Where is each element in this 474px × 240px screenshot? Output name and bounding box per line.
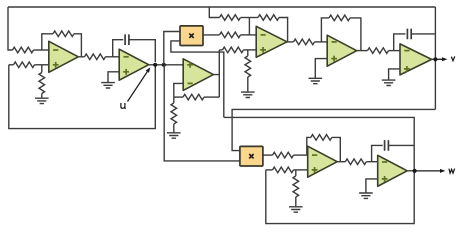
wire C2 to v line — [411, 33, 435, 35]
resistor R18 (w to U7 +) — [266, 169, 273, 171]
wire v rail drop — [209, 7, 219, 18]
wire U5 feedback drop — [350, 18, 361, 51]
wire C3 to w line — [388, 144, 414, 146]
wire U2 cap riser — [113, 40, 124, 57]
resistor R4 (U1 feedback) — [53, 31, 74, 37]
wire u feedback loop (left box bottom) — [9, 65, 156, 129]
resistor R10 (U3 feedback) — [174, 96, 183, 98]
wire U5 feedback riser — [321, 18, 329, 42]
wire U7 feedback drop — [332, 137, 341, 161]
wire U6 cap riser — [394, 34, 406, 51]
op-amp U6 — [400, 44, 432, 75]
multiplier M1 — [180, 26, 203, 46]
wire U5 + to ground — [315, 59, 327, 79]
wire M1 output — [203, 34, 220, 36]
wire U1 feedback to output — [74, 34, 81, 57]
resistor R6 (M1 out to U4 -) — [220, 32, 241, 38]
wire U8 output to node w — [407, 170, 414, 172]
node u junction dots — [153, 63, 157, 67]
wire u drop to M2 — [164, 65, 240, 161]
wire U6 + to ground — [389, 69, 400, 80]
label u — [121, 103, 126, 109]
node w dot — [413, 169, 417, 173]
wire w feedback loop (bottom box) — [266, 170, 414, 224]
wire U8 + to ground — [366, 179, 378, 193]
ground G8 — [359, 193, 373, 198]
wire u riser to M1 — [164, 32, 180, 65]
wire U4 - riser — [248, 18, 250, 35]
label v — [451, 56, 455, 60]
resistor R9 (U3 - to ground) — [173, 97, 175, 103]
wire U7 output — [337, 161, 345, 163]
resistor R2 (u input) — [9, 64, 14, 66]
wire U6 output to node v — [432, 58, 436, 60]
label w — [449, 169, 455, 174]
resistor R17 (U7 feedback) — [311, 135, 332, 141]
arrow v output — [435, 58, 442, 60]
wire M2 output — [263, 154, 273, 156]
ground G5 — [309, 78, 323, 83]
ground G4 — [241, 92, 255, 97]
resistor R14 (U5 feedback) — [329, 15, 350, 21]
resistor R20 (U7 out to U8 -) — [345, 159, 366, 165]
wire U5 output — [357, 50, 368, 52]
ground G2 — [101, 83, 115, 88]
op-amp U1 — [49, 41, 79, 72]
op-amp U8 — [378, 155, 408, 186]
resistor R15 (U5 out to U6 -) — [368, 48, 389, 54]
resistor R19 (U7 + to ground) — [295, 170, 297, 176]
resistor R11 (U3 out to U4 +) — [219, 49, 222, 51]
wire v vertical — [434, 7, 436, 109]
wire U4 feedback drop — [279, 18, 288, 42]
wire U7 feedback riser — [307, 137, 311, 155]
op-amp U2 — [119, 49, 149, 80]
op-amp U4 — [256, 26, 287, 57]
wire U4 output — [287, 41, 294, 43]
resistor R16 (M2 out to U7 -) — [273, 152, 294, 158]
wire C1 to u node — [129, 40, 155, 62]
capacitor C3 (U8 integrator) — [385, 140, 389, 151]
wire line A (v to M2) — [232, 109, 435, 150]
capacitor C1 (U2 integrator) — [125, 34, 129, 45]
ground G3 — [167, 133, 181, 138]
op-amp U3 — [183, 59, 213, 91]
resistor R3 (U1 + to ground) — [41, 65, 43, 73]
capacitor C2 (U6 integrator) — [407, 29, 411, 40]
wire U1 output — [78, 56, 84, 58]
wire w feed to M1 lower input — [171, 41, 224, 118]
op-amp U7 — [308, 146, 338, 177]
arrow w output — [415, 170, 440, 172]
arrow u pointer — [128, 72, 148, 102]
wire top feedback rail (v net) — [8, 6, 435, 8]
op-amp U5 — [327, 35, 357, 66]
wire U3 output riser — [213, 50, 219, 97]
resistor R12 (U4 + to ground) — [247, 50, 249, 56]
ground G7 — [289, 207, 303, 212]
resistor R5 (U1 out to U2) — [85, 54, 106, 60]
wire U1 feedback riser — [42, 34, 53, 50]
ground G6 — [382, 80, 396, 85]
multiplier M2 — [240, 146, 263, 166]
wire node u row — [149, 64, 184, 66]
wire U3 - input — [174, 83, 183, 97]
wire U2 + to ground — [108, 72, 119, 83]
wire left drop to R1 — [8, 7, 13, 50]
wire line B (w net) — [224, 117, 414, 170]
resistor R1 (v input) — [13, 47, 34, 53]
resistor R8 (U4 feedback) — [249, 17, 258, 19]
wire U8 cap riser — [372, 145, 383, 162]
resistor R13 (U4 out to U5 -) — [294, 39, 315, 45]
ground G1 — [35, 98, 49, 103]
node v dot — [433, 57, 437, 61]
resistor R7 (v to U4 -) — [220, 15, 241, 21]
